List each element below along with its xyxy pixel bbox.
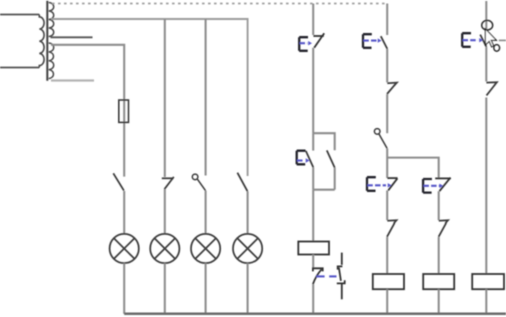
relay coil K3 <box>423 274 454 289</box>
wire secondary stub A <box>51 36 93 38</box>
wire latch right lower <box>334 168 336 190</box>
wire latch left upper <box>312 133 314 150</box>
lamp H2 <box>150 234 179 263</box>
fuse F1 <box>119 100 129 122</box>
transformer T1 core <box>46 1 48 81</box>
wire column D long <box>485 98 487 275</box>
wire column C to coil <box>438 237 440 274</box>
label E5 <box>299 37 312 51</box>
node latch branch bottom <box>313 189 335 191</box>
label E16 <box>462 33 483 47</box>
wire switch S4 to lamp H4 <box>247 191 249 234</box>
wire column B to coil <box>386 237 388 274</box>
label E6 <box>297 151 310 165</box>
wire column A to bus <box>312 284 314 314</box>
wire top bus <box>51 19 248 176</box>
contact K2 (NO) lower <box>387 220 397 237</box>
wire column B lower middle <box>386 148 388 178</box>
wire switch S1 to lamp H1 <box>123 191 125 234</box>
mechanical link (dashed) <box>316 275 336 277</box>
wire column A to coil <box>312 190 314 242</box>
wire switch S3 to lamp H3 <box>205 191 207 234</box>
wire secondary stub B <box>51 79 94 81</box>
wire lamp H2 to bus <box>164 263 166 314</box>
wire coil K3 to bus <box>438 289 440 314</box>
switch S6 start pushbutton (NO) <box>306 151 314 168</box>
switch S3 (NO contact with roller) <box>192 174 205 191</box>
contact K2 (NO) upper <box>387 83 397 94</box>
wire latch left lower <box>312 167 314 189</box>
wire column B middle <box>386 94 388 133</box>
bottom bus <box>124 313 506 316</box>
relay coil K4 <box>472 274 504 289</box>
wire column B upper <box>386 49 388 83</box>
transformer T1 secondary winding 1 <box>49 3 54 37</box>
wire coil K2 to bus <box>386 289 388 314</box>
wire lamp H3 to bus <box>205 263 207 314</box>
transformer T1 primary bottom wire <box>0 67 39 69</box>
switch S12 emergency NC contact <box>387 178 397 190</box>
switch S16 detent head circle <box>482 20 493 30</box>
switch S8 detent aux contact <box>337 253 345 300</box>
wire column A drop <box>312 4 314 36</box>
transformer T1 secondary winding 2 <box>49 43 54 79</box>
wire column B drop <box>386 4 388 36</box>
relay coil K1 <box>298 242 329 255</box>
contact K4 (NO) <box>486 82 497 95</box>
switch S4 (NO contact) <box>237 173 247 192</box>
label E14 <box>423 179 443 193</box>
wire lamp H4 to bus <box>247 263 249 314</box>
wire column D upper <box>485 47 487 82</box>
wire detent link right <box>499 39 506 41</box>
lamp H3 <box>191 234 220 263</box>
wire branch B to C <box>387 158 439 178</box>
wire lamp H1 to bus <box>123 263 125 314</box>
node latch branch top <box>313 133 335 150</box>
lamp H4 <box>233 234 262 263</box>
transformer T1 primary winding <box>39 15 44 68</box>
wire lamp column 2 <box>164 19 166 177</box>
wire coil K1 lower <box>312 255 314 269</box>
wire to fuse <box>51 45 124 177</box>
switch S14 emergency NC contact <box>435 178 451 192</box>
switch S9 pushbutton (NO) <box>381 36 388 49</box>
wire column B below E-switch <box>386 190 388 220</box>
wire dotted top supply line <box>52 3 387 5</box>
switch S2 (NC contact) <box>162 177 174 189</box>
switch S1 (NO contact) <box>113 173 124 190</box>
wire switch S2 to lamp H2 <box>164 189 166 234</box>
contact K1 latching (NO) <box>327 150 335 167</box>
contact K3 (NO with roller) <box>374 129 387 149</box>
transformer T1 primary top wire <box>0 14 39 16</box>
wire coil K4 to bus <box>485 289 487 314</box>
wire column A middle <box>312 48 314 133</box>
mouse cursor <box>485 29 496 47</box>
wire column D top <box>485 1 487 29</box>
label E9 <box>363 34 382 48</box>
switch S16 (NO contact) <box>480 35 486 47</box>
contact K3 (NO) lower <box>439 220 448 237</box>
label E12 <box>367 177 392 191</box>
lamp H1 <box>110 234 139 263</box>
relay coil K2 <box>373 274 404 289</box>
switch S7 detent NC contact <box>313 268 323 284</box>
switch S16 detent latch circle <box>494 45 500 52</box>
wire lamp column 3 <box>205 19 207 176</box>
switch S5 emergency NC contact <box>313 33 324 48</box>
wire column C below E-switch <box>438 191 440 220</box>
